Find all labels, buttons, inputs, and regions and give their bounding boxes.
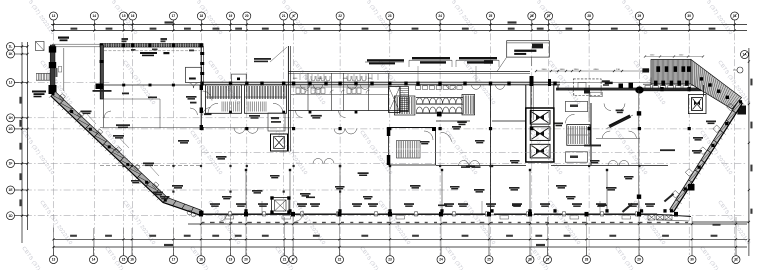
core side wall: [525, 85, 527, 108]
canopy edge lines left of wall: [52, 43, 100, 45]
svg-text:16: 16: [131, 14, 135, 18]
right spine blobs: [619, 84, 624, 89]
right dimension numbers: [750, 79, 752, 86]
right dimension line: [748, 48, 750, 256]
left bubble stems: [15, 83, 28, 216]
room box left of stair A: [389, 128, 436, 166]
wing A band fill: [51, 92, 202, 216]
lobby label: [555, 123, 564, 125]
svg-text:1F: 1F: [9, 162, 13, 166]
dashed corridor line y152.5: [202, 152, 660, 154]
grid bubble 18 top: [197, 12, 205, 20]
svg-text:26: 26: [528, 258, 532, 262]
west corner column: [96, 84, 104, 90]
M1821 labels below arcs: [461, 166, 470, 168]
grid bubble 22 top: [336, 12, 344, 20]
wing B cells: [670, 101, 743, 212]
wing B columns: [739, 100, 742, 103]
bottom grid bubble stems: [54, 247, 737, 255]
door arcs row: [313, 159, 629, 166]
svg-text:27: 27: [547, 14, 551, 18]
room label top: [140, 52, 157, 54]
wall x531: [530, 76, 532, 130]
grid bubble 14 bottom: [90, 256, 98, 264]
right grid bubble: [741, 51, 749, 59]
grid bubble 21 top: [280, 12, 288, 20]
svg-text:16: 16: [130, 258, 134, 262]
wing A transition circles: [187, 210, 196, 217]
north wall hatched band: [100, 44, 203, 47]
grid bubble 23 top: [386, 12, 394, 20]
grid bubble 16 top: [129, 12, 137, 20]
grid bubble 25 bottom: [485, 256, 493, 264]
svg-text:18: 18: [200, 14, 204, 18]
west wall: [100, 45, 103, 99]
svg-text:21: 21: [283, 258, 287, 262]
corridor door arcs right of wall: [203, 91, 213, 101]
svg-text:1H: 1H: [8, 116, 13, 120]
spine jog: [557, 85, 559, 91]
svg-text:27: 27: [546, 258, 550, 262]
label under north wall: [163, 52, 169, 54]
svg-text:1J: 1J: [9, 81, 13, 85]
svg-text:14: 14: [93, 14, 97, 18]
cell band below bank: [643, 83, 701, 85]
svg-text:14: 14: [92, 258, 96, 262]
corridor arcs below y110.5: [296, 111, 346, 118]
west small box 450: [58, 66, 61, 72]
west outer wall: [50, 45, 55, 91]
grid bubble 1F left: [7, 160, 15, 168]
wing B cell boxes: [672, 103, 735, 198]
spine wall left/mid: [202, 82, 560, 85]
north wall mullion ticks: [104, 44, 200, 47]
bottom dimension line C (totals): [53, 246, 747, 248]
svg-text:1L: 1L: [9, 45, 13, 49]
shop partitions: [245, 170, 247, 212]
left rooms west wall: [103, 86, 105, 128]
svg-text:31: 31: [733, 14, 737, 18]
tick cluster right of bridge: [603, 84, 609, 86]
svg-text:29: 29: [638, 14, 642, 18]
svg-text:13: 13: [52, 14, 56, 18]
room south wall y85: [104, 84, 201, 86]
top overall dimension texts: [165, 21, 174, 23]
shop window frames on wall: [229, 212, 639, 216]
stair S6 treads: [397, 141, 421, 159]
grid bubble 25 top: [487, 12, 495, 20]
grid bubble 17 top: [169, 12, 177, 20]
grid dots at intersections: [122, 165, 640, 193]
grid bubble K top: [290, 12, 298, 20]
svg-text:17: 17: [172, 258, 176, 262]
wing B labels: [706, 121, 716, 123]
wing B inner edge: [670, 101, 739, 210]
svg-text:1G: 1G: [8, 127, 13, 131]
door arcs below wall: [220, 214, 303, 221]
stair S2: [245, 85, 287, 114]
grid bubble 15 bottom: [120, 256, 128, 264]
svg-text:22: 22: [338, 258, 342, 262]
grid bubble 27 bottom: [544, 256, 552, 264]
left dimension ticks: [21, 81, 29, 216]
bottom overall dimension texts: [164, 244, 173, 246]
grid bubble 26 bottom: [526, 256, 534, 264]
elevator E2: [688, 95, 706, 114]
svg-text:23: 23: [388, 258, 392, 262]
grid bubble 31 top: [731, 12, 739, 20]
wing A cells: [51, 92, 194, 213]
escalator diagonal run: [691, 60, 742, 110]
corridor door arc left of wall: [190, 108, 198, 115]
toilets band: [296, 76, 370, 94]
grid bubble 22 bottom: [336, 256, 344, 264]
left dimension numbers: [19, 97, 21, 206]
grid bubble 14 top: [90, 12, 98, 20]
svg-text:25: 25: [489, 14, 493, 18]
leader verticals at labels: [262, 201, 600, 214]
west dim text: [56, 68, 58, 77]
bank connect walls: [650, 78, 652, 86]
svg-text:19: 19: [229, 258, 233, 262]
grid bubble 16 bottom: [128, 256, 136, 264]
south wall extension with X-cells: [657, 214, 691, 216]
bottom-right dimension line 4400: [692, 221, 749, 223]
grid bubble 1H left: [7, 114, 15, 122]
wing B outer edge: [674, 103, 743, 212]
tilted shop labels: [622, 193, 674, 213]
top dimension line B: [51, 30, 747, 32]
svg-text:1400: 1400: [560, 69, 566, 71]
svg-text:2400: 2400: [542, 69, 548, 71]
toilet stall dividers: [294, 74, 378, 80]
grid bubble 23 bottom: [386, 256, 394, 264]
wall x591: [590, 103, 592, 165]
grid intersection columns: [200, 127, 203, 130]
label leaders to spine: [417, 66, 419, 82]
svg-text:1300: 1300: [574, 69, 580, 71]
south wall: [201, 213, 657, 215]
shaft box with X at 270-290: [272, 198, 290, 214]
svg-text:30: 30: [690, 258, 694, 262]
corridor walls mid: [100, 165, 202, 167]
left tread block: [394, 96, 415, 115]
arc below wall y130: [441, 132, 452, 142]
svg-text:25: 25: [487, 258, 491, 262]
svg-text:24: 24: [438, 14, 442, 18]
labels above south wall: [210, 203, 655, 207]
svg-text:1A: 1A: [742, 53, 747, 57]
north wall columns: [100, 43, 103, 47]
centre big label: [584, 145, 601, 147]
escalator arcs row1: [416, 98, 462, 104]
svg-text:1D: 1D: [8, 214, 13, 218]
wing A columns: [52, 92, 55, 95]
svg-text:15: 15: [122, 14, 126, 18]
futi label: [457, 121, 467, 123]
lift lobby arc: [566, 114, 575, 123]
arc pairs below wall y127: [234, 128, 357, 134]
svg-text:31: 31: [734, 258, 738, 262]
mid elevator shaft: [271, 134, 288, 151]
svg-text:23: 23: [388, 14, 392, 18]
ramp room upper arcs: [604, 104, 625, 111]
ramp bar: [609, 115, 632, 129]
dims above escalator bank: [645, 56, 703, 58]
wall x289: [287, 46, 289, 152]
grid bubble 27 top: [545, 12, 553, 20]
canopy label top: [58, 37, 69, 39]
toilet mid walls: [291, 86, 388, 88]
bottom dimension line A (chain): [188, 223, 747, 225]
grid bubble 20 top: [243, 12, 251, 20]
grid bubble 1D left: [7, 212, 15, 220]
leader text h=: [254, 58, 271, 60]
right dimension ticks: [748, 60, 750, 62]
grid bubble 17 bottom: [170, 256, 178, 264]
door arc west: [104, 111, 111, 118]
svg-text:20: 20: [244, 258, 248, 262]
bottom dimension numbers: [70, 235, 717, 237]
grid lines vertical: [54, 21, 735, 256]
wall x490: [490, 85, 492, 213]
grid bubble 1E left: [7, 186, 15, 194]
fire room door arcs: [188, 83, 199, 89]
wall x202: [200, 46, 202, 84]
svg-text:24: 24: [439, 258, 443, 262]
stair S1: [206, 85, 242, 114]
svg-text:1K: 1K: [8, 52, 13, 56]
ramp room bottom wall: [596, 138, 640, 140]
svg-text:30: 30: [687, 14, 691, 18]
svg-text:6300: 6300: [594, 69, 600, 71]
bottom dimension ticks: [52, 223, 737, 241]
grid bubble 18 bottom: [197, 256, 205, 264]
spine wall columns: [200, 82, 203, 86]
wing A cell boxes upper side: [59, 94, 159, 189]
svg-text:21: 21: [282, 14, 286, 18]
grid bubble 29 bottom: [635, 256, 643, 264]
bottom dimension line B (bays): [53, 238, 747, 240]
elevator E1: [389, 87, 401, 113]
wing B foot blob: [688, 184, 695, 191]
top grid bubble stems: [54, 20, 735, 30]
svg-text:15: 15: [122, 258, 126, 262]
svg-text:20: 20: [245, 14, 249, 18]
west small stair treads: [36, 73, 50, 75]
shop row grid columns: [199, 212, 203, 217]
grid bubble 20 bottom: [242, 256, 250, 264]
wing A inner edge: [55, 92, 202, 211]
ramp label: [616, 110, 624, 112]
grid bubble 1J left: [7, 79, 15, 87]
elevator core block: [526, 108, 554, 162]
svg-text:13: 13: [52, 258, 56, 262]
wing A outer edge: [51, 96, 201, 215]
mid rooms partitions: [307, 73, 309, 110]
left canopy box: [36, 42, 45, 51]
west wall blobs: [49, 46, 56, 52]
grid bubble 29 top: [635, 12, 643, 20]
grid bubble 28 top: [585, 12, 593, 20]
wing A leader lines: [86, 113, 159, 176]
grid bubble 13 bottom: [50, 256, 58, 264]
wing B band fill: [670, 101, 743, 212]
small box below wall left: [590, 92, 602, 97]
grid lines horizontal: [12, 83, 747, 216]
grid bubble 28 bottom: [583, 256, 591, 264]
escalator mid blob: [437, 112, 442, 117]
partition columns: [244, 209, 247, 212]
grid bubble 30 bottom: [688, 256, 696, 264]
wing A outer ticks: [49, 96, 159, 200]
west two-line label: [32, 91, 46, 93]
boxed detail label: [507, 41, 550, 57]
escalator bank: [642, 60, 701, 91]
wall x589: [588, 85, 590, 122]
stair S3: [400, 87, 409, 112]
step boxes below wall: [225, 216, 631, 219]
bottom extension lines: [54, 217, 737, 247]
stair S4: [567, 125, 590, 146]
escalator end blob: [738, 106, 747, 115]
fire control room: [186, 67, 202, 82]
grid bubble 24 bottom: [437, 256, 445, 264]
corridor labels: [190, 102, 197, 104]
grid bubble 19 top: [227, 12, 235, 20]
M labels row: [438, 205, 447, 207]
left grid bubbles extra top pair: [15, 47, 28, 55]
left dimension line A: [21, 42, 23, 243]
grid bubble 21 bottom: [281, 256, 289, 264]
wall x201 lower: [200, 84, 202, 130]
small dims row under wall: [202, 222, 689, 223]
partition top dots: [245, 169, 247, 171]
top dimension line A: [51, 24, 747, 26]
svg-text:26: 26: [530, 14, 534, 18]
room box above stair: [566, 101, 588, 111]
top dimension numbers: [71, 28, 716, 30]
west inner line x63.8: [63, 48, 65, 91]
svg-text:29: 29: [637, 258, 641, 262]
grid bubble 19 bottom: [227, 256, 235, 264]
corridor wall y121: [436, 120, 470, 122]
svg-text:18: 18: [199, 258, 203, 262]
svg-text:28: 28: [587, 14, 591, 18]
spine small box: [232, 74, 247, 82]
grid bubble 24 top: [436, 12, 444, 20]
ramp room arcs: [602, 131, 610, 138]
escalator start circle: [737, 67, 743, 73]
top dimension ticks: [52, 23, 735, 31]
grid bubble 31 bottom: [732, 256, 740, 264]
south wall thin continuity: [201, 213, 657, 215]
interior labels: [216, 156, 227, 158]
spine door arcs: [301, 85, 505, 90]
mid north wall y72: [288, 71, 530, 73]
escalator arcs row2: [416, 107, 462, 113]
grid bubble 26 top: [528, 12, 536, 20]
grid bubble 15 top: [120, 12, 128, 20]
bridge dashed box: [573, 79, 601, 96]
grid bubble K bottom: [289, 256, 297, 264]
left dimension line B: [27, 42, 29, 230]
extra labels mid: [311, 115, 322, 117]
room box below stair: [566, 152, 588, 162]
wing B outer ticks: [677, 103, 745, 209]
svg-text:28: 28: [585, 258, 589, 262]
svg-text:19: 19: [229, 14, 233, 18]
wall y127: [100, 127, 292, 129]
svg-text:17: 17: [172, 14, 176, 18]
service box above shaft: [268, 113, 285, 131]
cells row under spine: [416, 86, 463, 90]
svg-text:22: 22: [338, 14, 342, 18]
1400 blob left of bank: [642, 68, 649, 72]
label row 1: [412, 57, 450, 59]
spine wall right (lower): [556, 88, 706, 91]
small dims above spine: [536, 70, 648, 72]
west room label: [178, 140, 189, 142]
awning dashed line below north wall: [104, 50, 200, 52]
grid bubble 30 top: [685, 12, 693, 20]
grid bubble 1G left: [7, 125, 15, 133]
wing A leader labels: [81, 111, 92, 113]
svg-text:1E: 1E: [9, 188, 13, 192]
connector columns x531: [530, 76, 534, 86]
grid bubble 13 top: [50, 12, 58, 20]
canopy marks above north wall: [122, 38, 129, 40]
right tread block: [462, 94, 475, 115]
extra labels: [131, 180, 141, 182]
west room partitions: [159, 99, 161, 128]
